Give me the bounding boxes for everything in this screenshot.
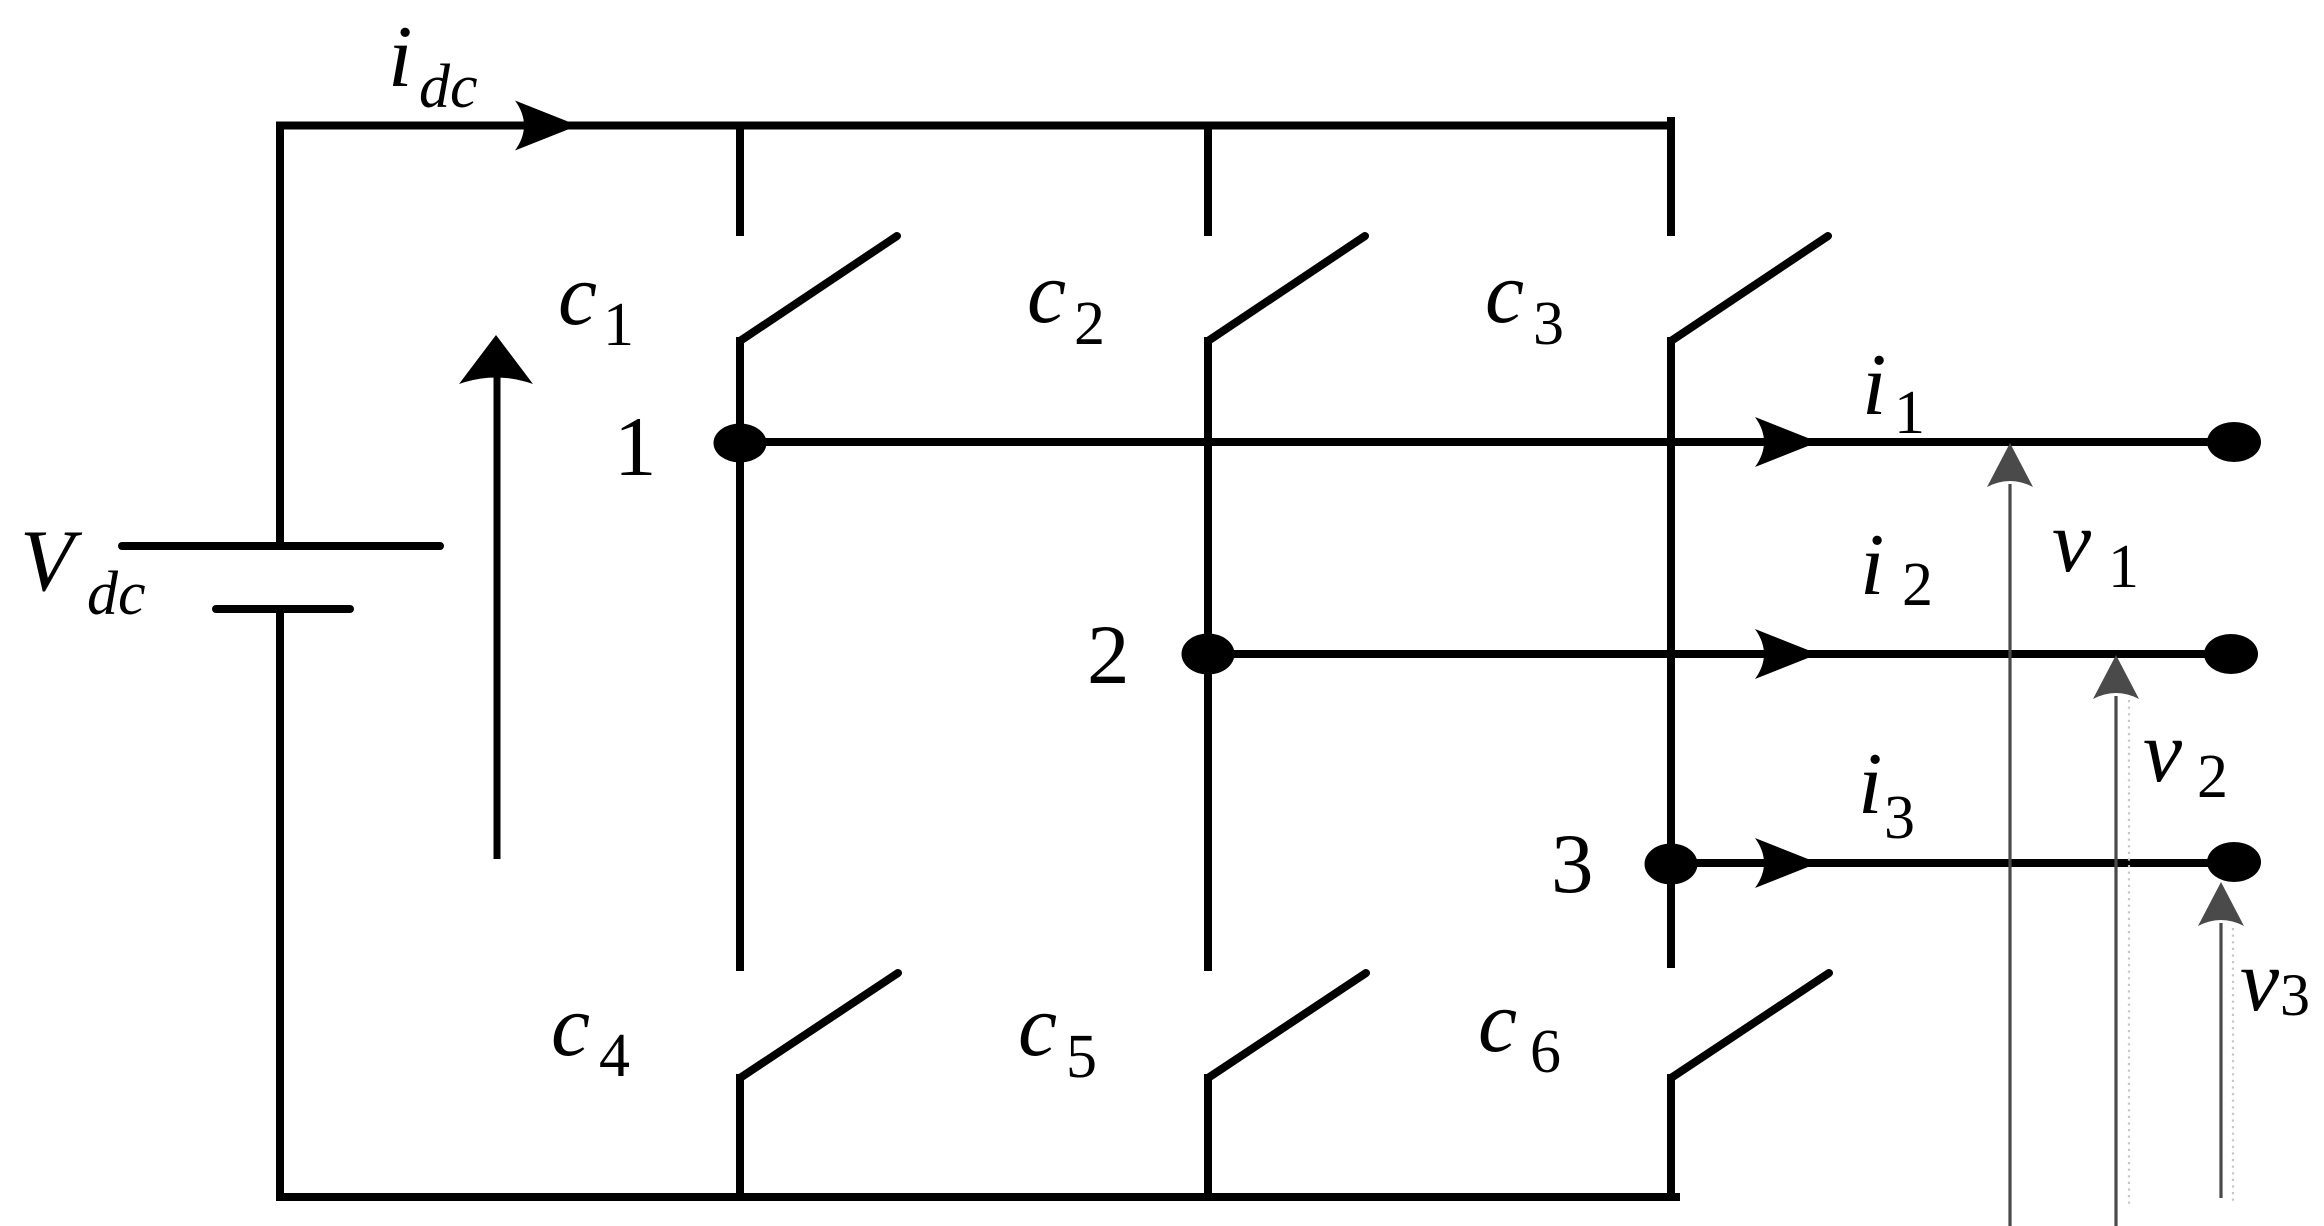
v2 arrow head [2093,655,2139,699]
svg-text:dc: dc [87,560,146,628]
svg-text:1: 1 [603,291,634,359]
leg 2 wire node2 to c5 [1204,654,1212,971]
leg 3 upper wire [1667,117,1675,236]
svg-text:1: 1 [2108,533,2139,601]
svg-text:3: 3 [2280,962,2310,1028]
svg-text:3: 3 [1533,290,1564,358]
leg 2 upper wire [1204,122,1212,237]
svg-text:2: 2 [1087,608,1130,702]
node 3 junction dot [1645,844,1698,885]
switch c2 blade [1208,236,1365,341]
svg-text:c: c [1018,978,1057,1075]
svg-text:v: v [2143,704,2183,801]
terminal dot phase 2 [2204,634,2258,674]
up arrow head [459,335,533,384]
wire bottom bus from battery to right [280,609,1680,1197]
i1 arrow head [1755,417,1818,467]
i_dc arrow head on top bus [515,101,578,151]
leg 3 wire c3 blade to node 3 [1667,337,1675,863]
svg-text:1: 1 [1894,379,1925,447]
switch c4 blade [740,973,898,1078]
leg 2 wire c2 blade to node 2 [1204,337,1212,654]
svg-text:v: v [2052,494,2092,591]
svg-text:i: i [1858,736,1882,833]
leg 3 wire node3 to c6 [1667,864,1675,968]
node 3 output wire [1671,859,2234,867]
svg-text:2: 2 [1902,551,1933,619]
wire c1 blade to node 1 [736,337,744,443]
node 2 junction dot [1182,634,1235,675]
terminal dot phase 3 [2207,842,2261,882]
svg-text:V: V [20,513,83,610]
wire c4 hinge to bottom bus [736,1074,744,1197]
svg-text:3: 3 [1884,784,1915,852]
v3 arrow head [2198,882,2244,926]
svg-text:2: 2 [1074,290,1105,358]
switch c5 blade [1208,973,1366,1078]
node 1 junction dot [714,424,767,463]
v1 voltage arrow stem [2008,484,2011,1226]
v2 dotted ghost line [2128,700,2130,1207]
terminal dot phase 1 [2207,422,2261,462]
node 1 output wire [740,438,2234,446]
svg-text:5: 5 [1066,1023,1097,1091]
svg-text:3: 3 [1551,817,1594,911]
i3 arrow head [1755,838,1818,888]
svg-text:i: i [388,9,412,106]
up arrow stem (dc-link current direction) [494,371,501,859]
battery V_dc bottom plate [216,605,350,613]
svg-text:1: 1 [614,400,657,494]
v1 arrow head [1987,443,2033,487]
wire c6 hinge to bottom bus [1667,1074,1675,1197]
svg-text:c: c [558,247,597,344]
leg 1 wire node1 to c4 [736,443,744,971]
svg-text:4: 4 [599,1022,630,1090]
svg-text:v: v [2240,933,2280,1030]
svg-text:6: 6 [1530,1018,1561,1086]
svg-text:i: i [1860,517,1884,614]
v2 voltage arrow stem [2114,696,2117,1226]
svg-text:2: 2 [2197,743,2228,811]
switch c6 blade [1671,973,1829,1078]
v3 voltage arrow stem [2219,923,2222,1198]
switch c1 blade [740,236,897,341]
svg-text:dc: dc [419,53,478,121]
svg-text:c: c [551,978,590,1075]
svg-text:c: c [1485,245,1524,342]
leg 1 upper wire [736,122,744,237]
svg-text:c: c [1027,245,1066,342]
i2 arrow head [1755,629,1818,679]
svg-text:c: c [1478,974,1517,1071]
node 2 output wire [1208,650,2231,658]
switch c3 blade [1671,236,1828,341]
v3 dotted ghost line [2232,928,2234,1204]
battery V_dc top plate [122,542,440,550]
wire top bus from battery to right [280,126,1673,547]
wire c5 hinge to bottom bus [1204,1074,1212,1197]
svg-text:i: i [1862,337,1886,434]
